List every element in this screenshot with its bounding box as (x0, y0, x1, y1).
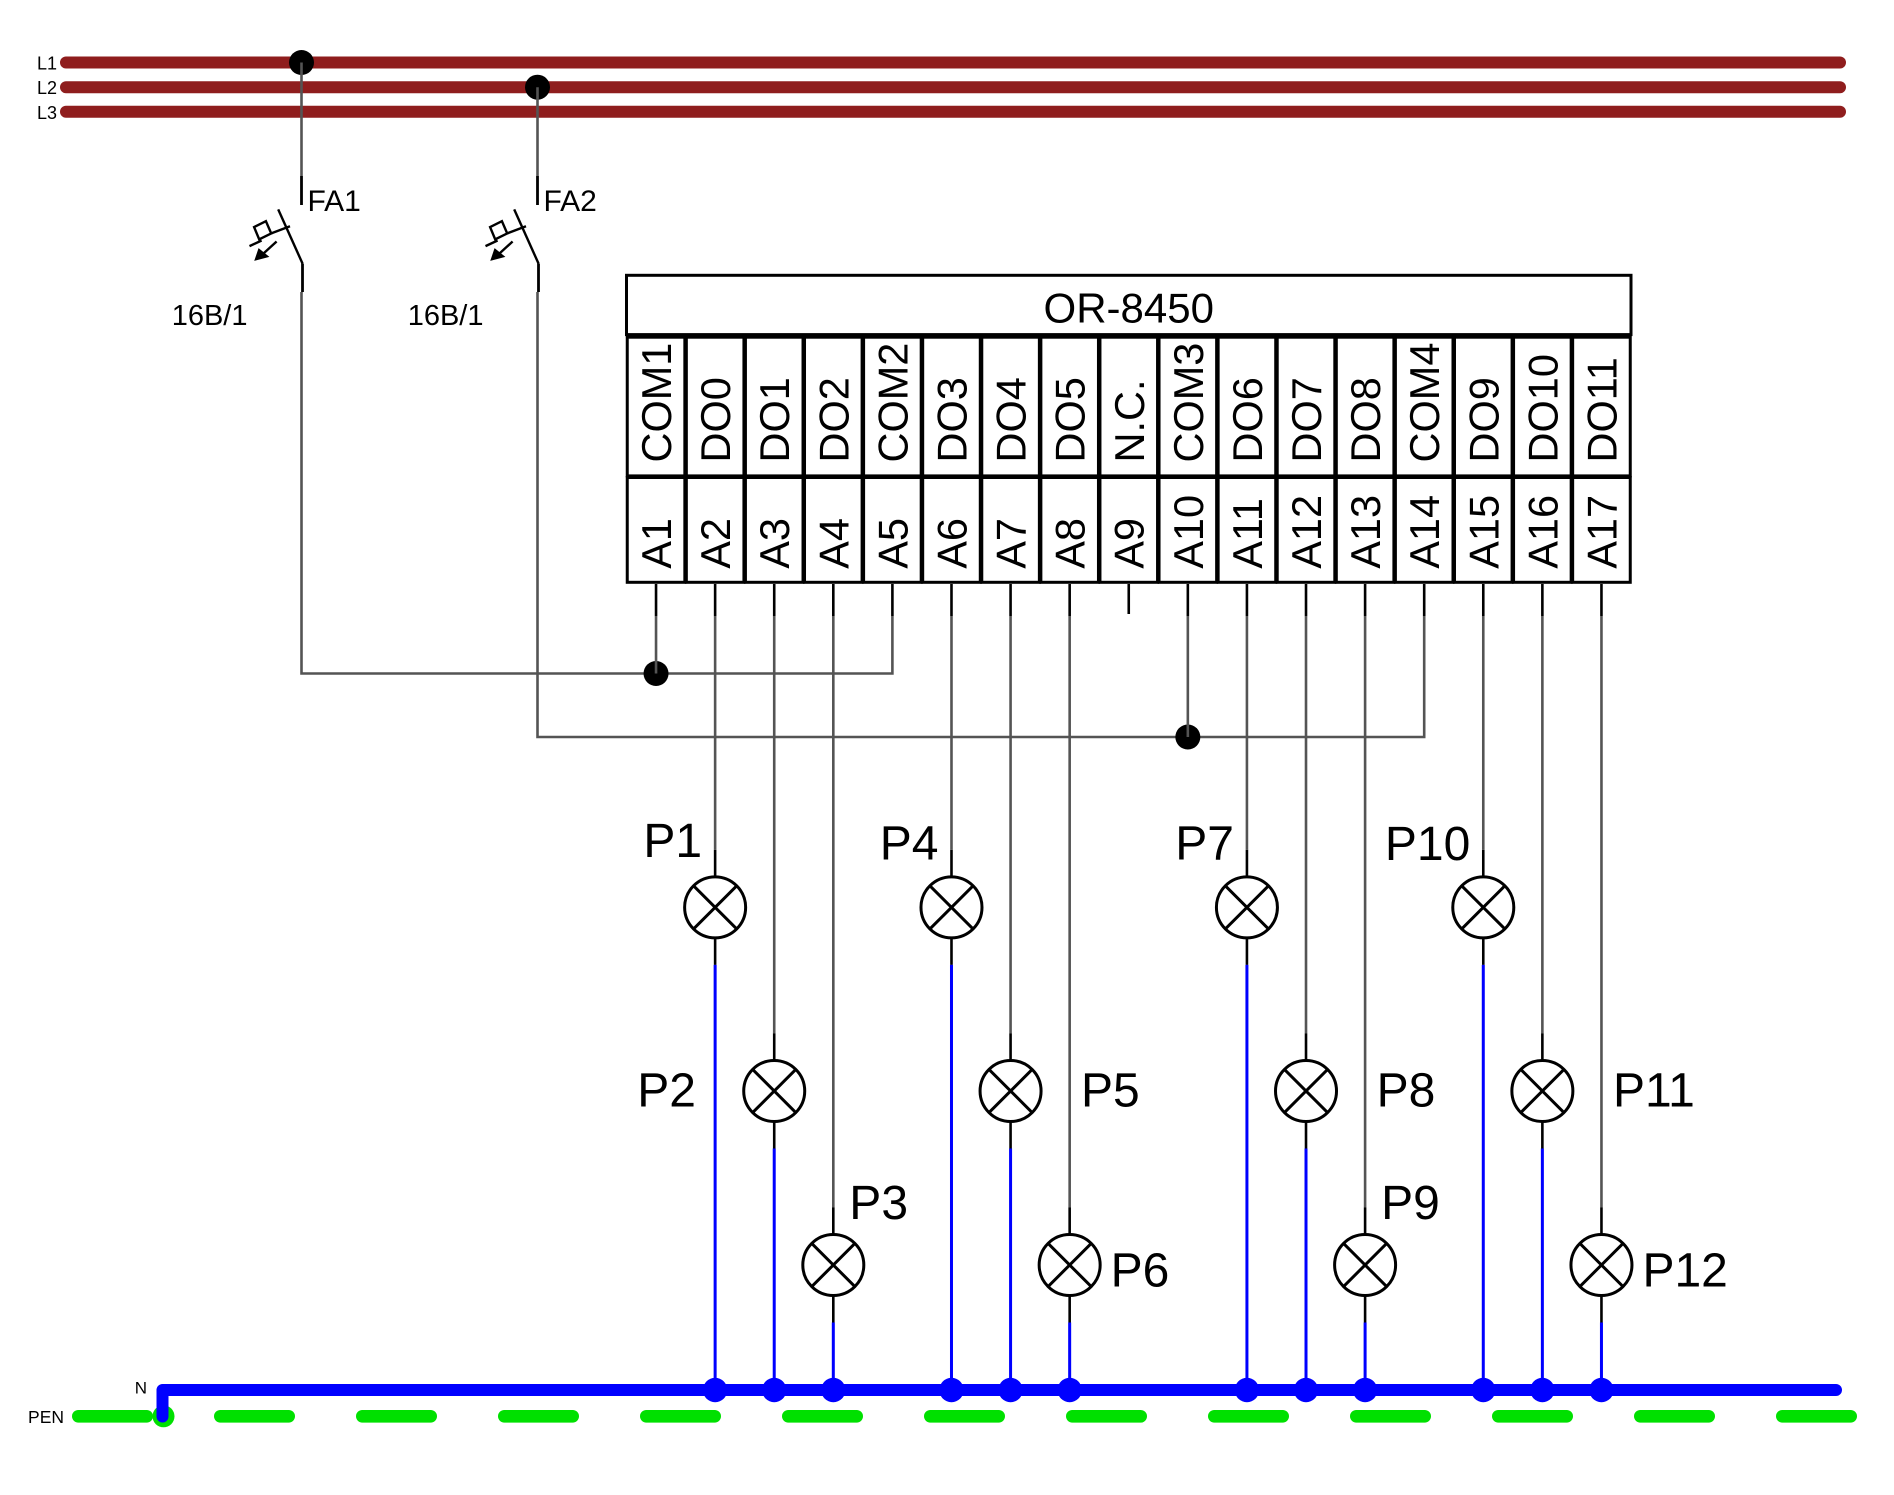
svg-text:P2: P2 (637, 1065, 696, 1118)
svg-text:A13: A13 (1342, 495, 1389, 569)
svg-text:DO9: DO9 (1460, 377, 1507, 462)
svg-text:A4: A4 (810, 518, 857, 569)
svg-text:P1: P1 (643, 815, 702, 868)
svg-text:P7: P7 (1175, 818, 1234, 871)
svg-text:COM1: COM1 (633, 343, 680, 463)
svg-text:OR-8450: OR-8450 (1044, 284, 1214, 331)
svg-text:DO7: DO7 (1283, 377, 1330, 462)
svg-text:DO3: DO3 (928, 377, 975, 462)
svg-text:A16: A16 (1519, 495, 1566, 569)
svg-text:DO4: DO4 (988, 377, 1035, 462)
svg-text:A7: A7 (988, 518, 1035, 569)
svg-text:P10: P10 (1385, 818, 1470, 871)
svg-text:DO8: DO8 (1342, 377, 1389, 462)
svg-text:L1: L1 (37, 54, 57, 74)
svg-text:A10: A10 (1165, 495, 1212, 569)
svg-text:A11: A11 (1224, 498, 1271, 569)
svg-text:P3: P3 (849, 1177, 908, 1230)
svg-text:A14: A14 (1401, 495, 1448, 569)
svg-text:DO11: DO11 (1578, 357, 1625, 462)
svg-text:P8: P8 (1377, 1065, 1436, 1118)
svg-text:P9: P9 (1381, 1177, 1440, 1230)
svg-text:16B/1: 16B/1 (408, 300, 484, 332)
svg-text:COM4: COM4 (1401, 343, 1448, 463)
svg-text:FA1: FA1 (308, 185, 361, 218)
svg-text:P11: P11 (1613, 1065, 1695, 1118)
svg-text:A15: A15 (1460, 495, 1507, 569)
svg-text:A12: A12 (1283, 495, 1330, 569)
svg-text:A1: A1 (633, 518, 680, 569)
svg-text:DO10: DO10 (1519, 354, 1566, 462)
svg-text:DO6: DO6 (1224, 377, 1271, 462)
svg-text:16B/1: 16B/1 (172, 300, 248, 332)
svg-text:P4: P4 (880, 818, 939, 871)
svg-text:DO2: DO2 (810, 377, 857, 462)
svg-text:DO1: DO1 (751, 377, 798, 462)
svg-text:N.C.: N.C. (1106, 380, 1153, 463)
svg-text:N: N (135, 1379, 147, 1398)
svg-text:A5: A5 (869, 518, 916, 569)
svg-text:L2: L2 (37, 78, 57, 98)
svg-text:P12: P12 (1642, 1245, 1727, 1298)
svg-text:P6: P6 (1111, 1245, 1170, 1298)
svg-text:COM3: COM3 (1165, 343, 1212, 463)
svg-text:A3: A3 (751, 518, 798, 569)
svg-text:P5: P5 (1081, 1065, 1140, 1118)
svg-text:A8: A8 (1047, 518, 1094, 569)
svg-text:A6: A6 (928, 518, 975, 569)
svg-text:FA2: FA2 (544, 185, 597, 218)
svg-text:DO0: DO0 (692, 377, 739, 462)
svg-text:PEN: PEN (28, 1407, 64, 1427)
svg-text:DO5: DO5 (1047, 377, 1094, 462)
svg-text:A2: A2 (692, 518, 739, 569)
svg-text:A17: A17 (1578, 495, 1625, 569)
svg-text:A9: A9 (1106, 518, 1153, 569)
svg-text:L3: L3 (37, 103, 57, 123)
svg-text:COM2: COM2 (869, 343, 916, 463)
